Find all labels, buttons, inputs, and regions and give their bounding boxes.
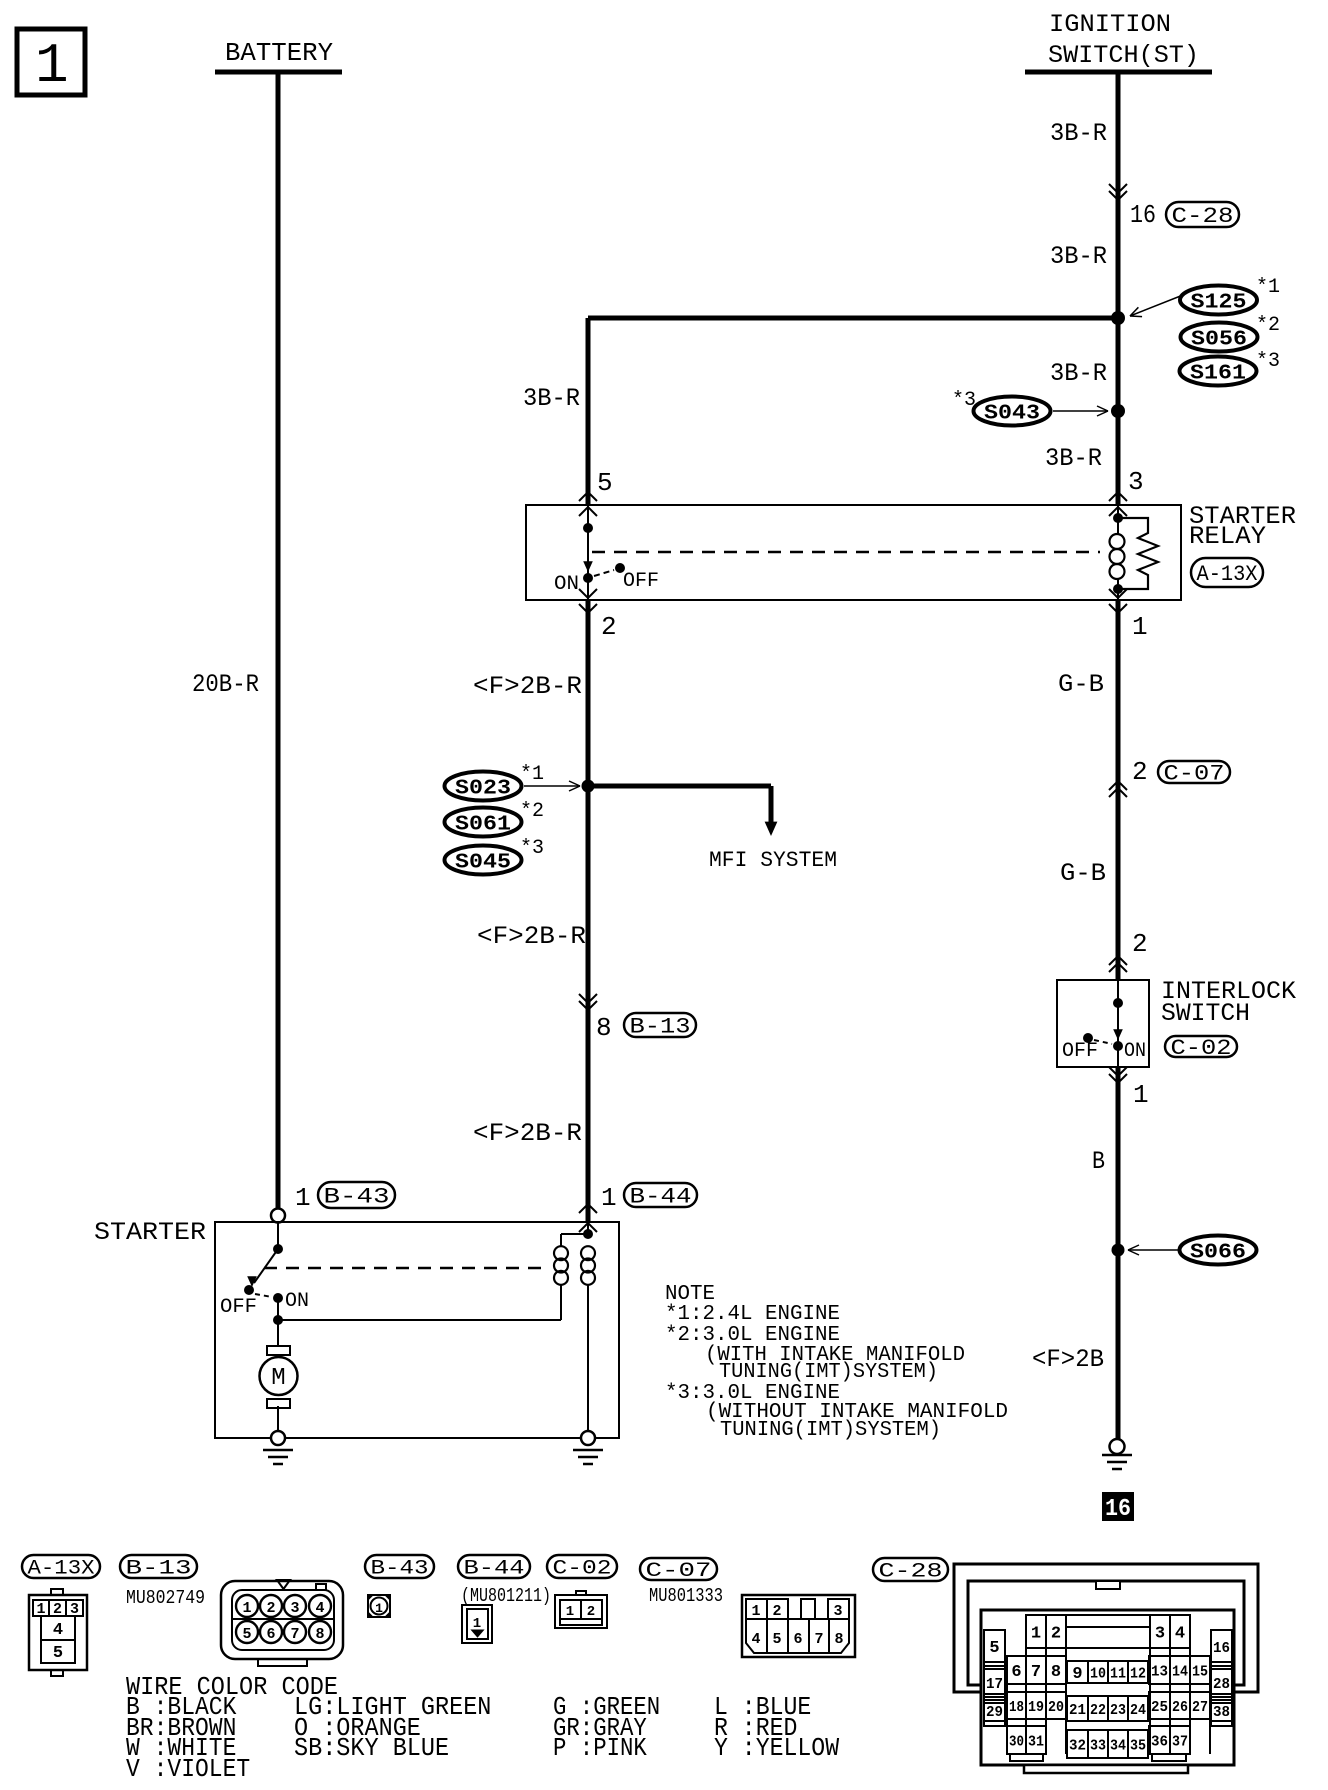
svg-text:<F>2B-R: <F>2B-R <box>473 1119 582 1148</box>
svg-text:15: 15 <box>1192 1663 1208 1680</box>
svg-text:2: 2 <box>266 1600 275 1617</box>
svg-text:S161: S161 <box>1190 363 1246 386</box>
svg-text:A-13X: A-13X <box>1197 562 1258 587</box>
svg-text:ON: ON <box>554 573 579 596</box>
svg-text:1: 1 <box>1132 612 1148 642</box>
svg-text:3: 3 <box>290 1600 299 1617</box>
svg-text:A-13X: A-13X <box>28 1557 95 1580</box>
svg-text:7: 7 <box>1031 1663 1041 1682</box>
svg-text:3: 3 <box>1128 467 1144 497</box>
svg-text:29: 29 <box>986 1704 1003 1721</box>
svg-text:2: 2 <box>601 612 617 642</box>
svg-text:1: 1 <box>601 1183 617 1213</box>
svg-text:2: 2 <box>1132 929 1148 959</box>
svg-text:38: 38 <box>1213 1704 1230 1721</box>
svg-text:20B-R: 20B-R <box>192 670 259 699</box>
svg-text:5: 5 <box>53 1644 63 1663</box>
svg-text:SWITCH(ST): SWITCH(ST) <box>1048 41 1199 70</box>
svg-text:7: 7 <box>814 1631 823 1648</box>
svg-text:B-13: B-13 <box>126 1557 192 1580</box>
svg-text:2: 2 <box>772 1603 781 1620</box>
svg-text:34: 34 <box>1110 1737 1126 1754</box>
svg-text:30: 30 <box>1009 1733 1024 1750</box>
svg-text:7: 7 <box>290 1626 299 1643</box>
svg-text:RELAY: RELAY <box>1189 522 1266 551</box>
svg-text:28: 28 <box>1213 1676 1230 1693</box>
svg-text:2: 2 <box>1051 1624 1061 1643</box>
svg-text:G-B: G-B <box>1058 670 1104 699</box>
svg-text:S023: S023 <box>455 778 511 801</box>
svg-text:*3: *3 <box>520 837 544 860</box>
svg-text:16: 16 <box>1130 200 1156 230</box>
svg-text:14: 14 <box>1172 1663 1188 1680</box>
svg-text:SWITCH: SWITCH <box>1161 999 1250 1028</box>
svg-text:S045: S045 <box>455 852 511 875</box>
svg-text:C-07: C-07 <box>1164 761 1225 786</box>
svg-text:4: 4 <box>53 1621 63 1640</box>
svg-text:22: 22 <box>1090 1702 1106 1719</box>
svg-text:BATTERY: BATTERY <box>225 38 333 68</box>
svg-text:*1: *1 <box>520 763 544 786</box>
svg-text:20: 20 <box>1048 1699 1064 1716</box>
svg-text:C-02: C-02 <box>1171 1036 1232 1061</box>
svg-text:<F>2B: <F>2B <box>1032 1345 1104 1374</box>
svg-text:8: 8 <box>1051 1663 1061 1682</box>
svg-text:17: 17 <box>986 1676 1003 1693</box>
svg-text:35: 35 <box>1130 1737 1146 1754</box>
svg-text:1: 1 <box>242 1600 251 1617</box>
svg-text:23: 23 <box>1110 1702 1126 1719</box>
svg-text:TUNING(IMT)SYSTEM): TUNING(IMT)SYSTEM) <box>720 1419 941 1442</box>
svg-text:C-28: C-28 <box>879 1560 943 1583</box>
svg-text:1: 1 <box>35 34 69 98</box>
svg-text:IGNITION: IGNITION <box>1049 10 1171 39</box>
svg-text:33: 33 <box>1090 1737 1106 1754</box>
svg-text:1: 1 <box>295 1183 311 1213</box>
svg-text:S066: S066 <box>1190 1242 1246 1265</box>
svg-text:ON: ON <box>1124 1040 1146 1063</box>
svg-text:MU801333: MU801333 <box>649 1585 723 1607</box>
svg-text:B-44: B-44 <box>630 1184 692 1209</box>
svg-text:24: 24 <box>1130 1702 1146 1719</box>
svg-text:*1: *1 <box>1256 276 1280 299</box>
svg-text:B-13: B-13 <box>630 1014 691 1039</box>
svg-text:Y :YELLOW: Y :YELLOW <box>714 1733 839 1763</box>
svg-text:3B-R: 3B-R <box>1045 444 1102 473</box>
svg-text:*2: *2 <box>520 800 544 823</box>
svg-text:19: 19 <box>1028 1699 1044 1716</box>
svg-text:*2: *2 <box>1256 314 1280 337</box>
svg-text:C-02: C-02 <box>553 1557 612 1580</box>
svg-text:*1:2.4L ENGINE: *1:2.4L ENGINE <box>665 1303 840 1326</box>
svg-text:2: 2 <box>1132 757 1148 787</box>
svg-text:<F>2B-R: <F>2B-R <box>477 922 586 951</box>
svg-text:B-44: B-44 <box>464 1557 525 1580</box>
svg-text:25: 25 <box>1151 1699 1168 1716</box>
svg-text:10: 10 <box>1090 1665 1106 1682</box>
svg-text:32: 32 <box>1069 1737 1086 1754</box>
svg-text:3B-R: 3B-R <box>523 384 580 413</box>
svg-text:V :VIOLET: V :VIOLET <box>126 1754 250 1784</box>
svg-text:11: 11 <box>1110 1665 1126 1682</box>
svg-text:8: 8 <box>315 1626 324 1643</box>
svg-text:OFF: OFF <box>1062 1040 1098 1063</box>
svg-text:8: 8 <box>596 1013 612 1043</box>
svg-text:9: 9 <box>1072 1665 1082 1684</box>
svg-text:1: 1 <box>375 1601 383 1616</box>
svg-text:ON: ON <box>285 1290 309 1313</box>
svg-text:6: 6 <box>793 1631 802 1648</box>
svg-text:6: 6 <box>1011 1663 1021 1682</box>
svg-text:13: 13 <box>1151 1663 1168 1680</box>
svg-text:5: 5 <box>242 1626 251 1643</box>
svg-text:37: 37 <box>1172 1733 1188 1750</box>
svg-text:S125: S125 <box>1191 292 1247 315</box>
svg-text:<F>2B-R: <F>2B-R <box>473 672 582 701</box>
svg-text:26: 26 <box>1172 1699 1188 1716</box>
svg-text:(MU801211): (MU801211) <box>461 1585 551 1607</box>
svg-text:B-43: B-43 <box>371 1557 429 1580</box>
svg-text:16: 16 <box>1213 1640 1230 1657</box>
svg-text:3B-R: 3B-R <box>1050 359 1107 388</box>
svg-text:4: 4 <box>751 1631 760 1648</box>
svg-text:27: 27 <box>1192 1699 1208 1716</box>
svg-text:31: 31 <box>1028 1733 1044 1750</box>
svg-text:1: 1 <box>751 1603 760 1620</box>
svg-text:MU802749: MU802749 <box>126 1587 205 1609</box>
svg-text:4: 4 <box>1175 1624 1185 1643</box>
svg-text:1: 1 <box>1031 1624 1041 1643</box>
svg-text:18: 18 <box>1009 1699 1024 1716</box>
svg-text:36: 36 <box>1151 1733 1168 1750</box>
svg-text:S043: S043 <box>984 403 1040 426</box>
svg-text:1: 1 <box>1133 1080 1149 1110</box>
svg-text:1: 1 <box>566 1604 574 1620</box>
svg-text:SB:SKY BLUE: SB:SKY BLUE <box>294 1733 449 1763</box>
svg-text:21: 21 <box>1069 1702 1086 1719</box>
svg-text:3B-R: 3B-R <box>1050 119 1107 148</box>
svg-text:5: 5 <box>772 1631 781 1648</box>
svg-text:*3: *3 <box>1256 350 1280 373</box>
svg-text:6: 6 <box>266 1626 275 1643</box>
svg-text:C-07: C-07 <box>646 1560 712 1583</box>
svg-text:3: 3 <box>833 1603 842 1620</box>
svg-text:4: 4 <box>315 1600 324 1617</box>
svg-text:B-43: B-43 <box>324 1184 390 1209</box>
svg-text:MFI SYSTEM: MFI SYSTEM <box>709 848 837 873</box>
svg-text:3: 3 <box>1155 1624 1165 1643</box>
svg-text:OFF: OFF <box>623 570 659 593</box>
svg-text:OFF: OFF <box>220 1296 257 1319</box>
svg-text:16: 16 <box>1105 1496 1131 1523</box>
svg-text:C-28: C-28 <box>1172 204 1234 229</box>
svg-text:TUNING(IMT)SYSTEM): TUNING(IMT)SYSTEM) <box>719 1361 938 1384</box>
svg-text:8: 8 <box>834 1631 843 1648</box>
svg-text:5: 5 <box>597 468 613 498</box>
svg-text:M: M <box>271 1365 285 1392</box>
svg-text:12: 12 <box>1130 1665 1146 1682</box>
svg-text:2: 2 <box>587 1604 595 1620</box>
svg-text:S061: S061 <box>455 814 511 837</box>
svg-text:5: 5 <box>989 1639 999 1658</box>
svg-text:P :PINK: P :PINK <box>553 1733 647 1763</box>
svg-text:S056: S056 <box>1191 329 1247 352</box>
svg-text:G-B: G-B <box>1060 859 1106 888</box>
svg-text:B: B <box>1092 1147 1105 1176</box>
svg-text:3B-R: 3B-R <box>1050 242 1107 271</box>
svg-text:STARTER: STARTER <box>94 1218 206 1247</box>
